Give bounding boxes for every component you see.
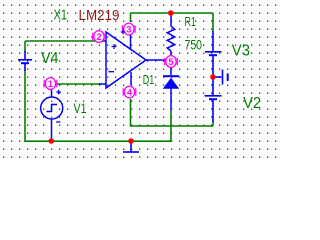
node 5 [165, 56, 178, 68]
ground [123, 143, 139, 152]
op-amp plus input mark [112, 44, 117, 49]
op-amp pin2 stub [100, 40, 106, 42]
junction dot right [210, 74, 216, 80]
op-amp pin3 line [130, 24, 132, 49]
wire left rail x=25 [24, 41, 26, 52]
op-amp minus input mark [109, 71, 115, 73]
svg-text:D1: D1 [143, 72, 155, 87]
battery V4 [18, 51, 32, 71]
op-amp inverting pin stub [99, 83, 106, 85]
svg-text:LM219: LM219 [79, 8, 120, 24]
svg-text:R1: R1 [185, 14, 197, 29]
pin3 plus mark [121, 30, 125, 34]
battery unlabeled horizontal [213, 70, 228, 85]
wire V2 bottom stub [212, 121, 214, 126]
pulse source V1 [41, 90, 63, 141]
svg-text:4: 4 [127, 88, 133, 99]
svg-text:V3: V3 [232, 42, 250, 59]
svg-text:1: 1 [48, 79, 54, 90]
svg-text:2: 2 [96, 32, 101, 43]
resistor R1 [167, 15, 175, 56]
battery V2 [205, 96, 222, 122]
junction dot V1 [49, 138, 55, 144]
node 1 [44, 78, 57, 90]
node 4 [123, 86, 136, 98]
wire top rail y=13 [131, 12, 214, 14]
wire left input y=41 [25, 40, 103, 42]
V1 minus mark [56, 121, 61, 123]
svg-text:5: 5 [168, 57, 174, 68]
battery V3 [205, 31, 222, 95]
junction dot top [168, 10, 174, 16]
wire V1 output y=84 [57, 83, 100, 85]
svg-text:V1: V1 [74, 100, 87, 116]
node 3 [123, 23, 136, 35]
node 2 [93, 31, 106, 43]
op-amp pin4 line [130, 72, 132, 85]
diode D1 [163, 67, 179, 110]
V1 plus mark [56, 90, 60, 94]
op-amp output line [146, 59, 171, 61]
wire left rail lower [24, 70, 26, 141]
op-amp X1 triangle [106, 32, 146, 88]
wire pin4 net to V2 [131, 99, 214, 126]
svg-text:3: 3 [126, 25, 131, 36]
junction dot ground [128, 138, 134, 144]
svg-text:V2: V2 [243, 95, 261, 112]
svg-text:750: 750 [185, 37, 203, 53]
svg-text:X1: X1 [54, 6, 68, 23]
wire pin3 stub [130, 13, 132, 22]
wire V3 top stub [212, 13, 214, 31]
wire bottom rail y=141 [24, 110, 171, 141]
svg-text:V4: V4 [41, 50, 59, 67]
